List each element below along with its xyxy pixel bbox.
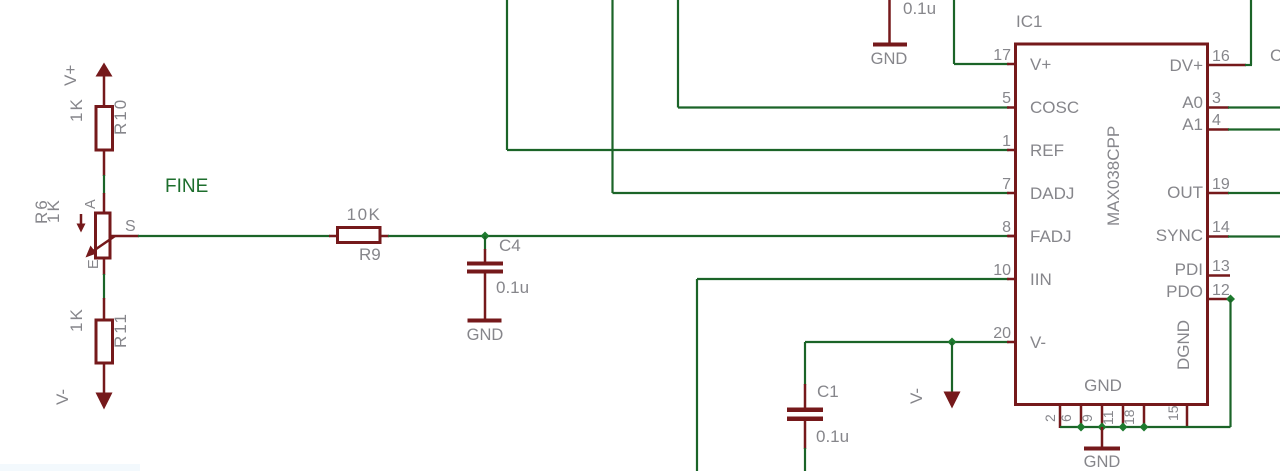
junction node PDO net [1226,295,1235,304]
pin 14 SYNC stub and wire [1208,235,1280,238]
pin 16 DV+ stub and wire [1208,0,1252,65]
pin 20 V- stub [1007,341,1015,344]
svg-text:19: 19 [1212,176,1230,193]
svg-text:V-: V- [907,388,926,404]
wire COSC net to pin 5 [678,0,1009,108]
capacitor C4 [467,236,503,319]
wire R9 to FADJ pin 8 [380,235,1015,238]
wire pot S to R9 (FINE net) [110,235,337,238]
svg-text:PDI: PDI [1175,260,1203,279]
svg-text:R9: R9 [359,245,381,264]
svg-text:6: 6 [1058,414,1074,422]
svg-text:0.1u: 0.1u [816,427,849,446]
svg-text:A0: A0 [1182,93,1203,112]
wire V+ net to pin 17 [954,0,1009,64]
svg-text:DV+: DV+ [1169,56,1203,75]
svg-text:V-: V- [53,389,72,405]
pin 17 V+ stub [1007,63,1015,66]
resistor R9 [338,228,381,243]
svg-text:FINE: FINE [165,176,208,197]
junction node pin 11 [1119,423,1128,432]
svg-text:16: 16 [1212,48,1230,65]
svg-text:8: 8 [1002,219,1011,236]
pin 15 DGND stub [1186,404,1189,428]
pin 1 REF stub [1007,149,1015,152]
svg-text:DADJ: DADJ [1030,184,1074,203]
svg-text:12: 12 [1212,282,1230,299]
pin 3 A0 stub and wire [1208,106,1280,109]
pin 5 COSC stub [1007,106,1015,109]
svg-text:V-: V- [1030,333,1046,352]
pin 18 GND stub [1143,404,1146,428]
svg-text:11: 11 [1100,410,1116,425]
svg-text:C1: C1 [817,382,839,401]
pin 7 DADJ stub [1007,192,1015,195]
wire bottom ground net [1060,426,1231,428]
junction node pin 18 [1140,423,1149,432]
svg-text:20: 20 [993,325,1011,342]
pin 2 GND stub [1059,404,1062,428]
pin 11 GND stub [1122,404,1125,428]
svg-text:17: 17 [993,47,1011,64]
junction node pin 6 [1077,423,1086,432]
svg-text:SYNC: SYNC [1156,226,1203,245]
svg-text:FADJ: FADJ [1030,227,1072,246]
svg-text:1: 1 [1002,133,1011,150]
resistor R10 [96,107,113,151]
svg-text:PDO: PDO [1166,282,1203,301]
svg-text:E: E [86,259,102,269]
svg-text:GND: GND [1084,453,1121,471]
svg-text:C4: C4 [499,236,521,255]
svg-text:3: 3 [1212,90,1221,107]
svg-text:1K: 1K [67,97,86,122]
svg-text:1K: 1K [67,307,86,332]
svg-text:IIN: IIN [1030,270,1052,289]
svg-text:2: 2 [1042,414,1058,422]
capacitor lead (top bypass cap, cropped) [888,0,891,43]
svg-text:OUT: OUT [1167,183,1203,202]
wire V- net to pin 20 [805,341,1009,343]
junction node C4/FADJ [481,232,490,241]
svg-text:18: 18 [1121,409,1137,425]
svg-text:GND: GND [871,50,908,68]
svg-text:13: 13 [1212,258,1230,275]
ground symbol (IC bottom) [1084,427,1120,451]
ground symbol (C4) [468,319,502,323]
pin 12 PDO stub [1208,298,1230,301]
svg-text:0.1u: 0.1u [496,278,529,297]
svg-text:S: S [125,218,136,235]
junction node pin 9 [1098,423,1107,432]
svg-text:REF: REF [1030,141,1064,160]
resistor R11 [96,320,113,363]
pin 10 IIN stub [1007,278,1015,281]
svg-text:9: 9 [1079,414,1095,422]
svg-text:14: 14 [1212,219,1230,236]
potentiometer R6 wiper arrow [86,236,116,258]
pin 4 A1 stub and wire [1208,128,1280,131]
svg-text:COSC: COSC [1030,98,1079,117]
svg-text:C: C [1270,46,1280,65]
svg-text:MAX038CPP: MAX038CPP [1104,126,1123,226]
wire DADJ net to pin 7 [613,0,1010,193]
svg-text:A: A [83,199,99,209]
svg-text:15: 15 [1165,405,1181,421]
svg-text:IC1: IC1 [1016,12,1042,31]
junction node V- net [948,338,957,347]
background tint (bottom-left) [0,464,140,471]
svg-text:R10: R10 [111,98,130,135]
svg-text:V+: V+ [1030,55,1051,74]
svg-text:A1: A1 [1182,115,1203,134]
supply symbol V- (bottom) [96,363,113,410]
potentiometer R6 body [96,213,111,258]
capacitor C1 [787,342,823,471]
svg-text:V+: V+ [61,65,80,86]
wire REF net to pin 1 [507,0,1009,150]
svg-text:R11: R11 [111,312,130,348]
svg-text:4: 4 [1212,112,1221,129]
supply symbol V- (near IC) [944,342,961,409]
potentiometer R6 adjust arrow [77,214,86,233]
svg-text:GND: GND [467,326,504,344]
ground symbol (top cap) [873,43,907,47]
wire pot E to R11 [103,258,106,320]
svg-text:7: 7 [1002,176,1011,193]
svg-text:GND: GND [1084,376,1122,395]
wire IIN net to pin 10 [697,279,1009,471]
pin 6 GND stub [1080,404,1083,428]
svg-text:10: 10 [993,262,1011,279]
pin 9 GND stub [1101,404,1104,428]
pin 13 PDI stub [1208,274,1230,277]
op-amp IC1 MAX038CPP body [1016,44,1208,405]
svg-text:0.1u: 0.1u [903,0,936,18]
svg-text:10K: 10K [347,205,382,224]
svg-text:DGND: DGND [1174,320,1193,370]
wire R10 to pot A (pin stubs + net) [103,150,106,213]
pin 19 OUT stub and wire [1208,192,1280,195]
wire PDO to bottom ground net [1229,299,1231,427]
svg-text:5: 5 [1002,90,1011,107]
pin 8 FADJ stub [1007,235,1015,238]
supply symbol V+ (top of R10 chain) [96,63,113,107]
svg-text:1K: 1K [44,198,63,223]
